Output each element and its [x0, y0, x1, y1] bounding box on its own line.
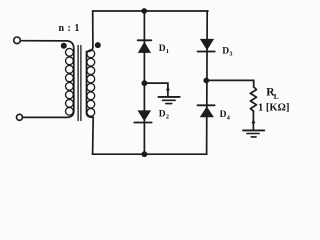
svg-text:D: D — [159, 110, 166, 120]
svg-text:D: D — [159, 44, 166, 54]
svg-text:D: D — [220, 110, 227, 120]
svg-text:D: D — [222, 47, 229, 57]
svg-text:2: 2 — [166, 114, 169, 121]
svg-text:n : 1: n : 1 — [59, 23, 80, 34]
svg-text:1: 1 — [166, 48, 169, 55]
svg-text:1 [KΩ]: 1 [KΩ] — [258, 103, 289, 114]
svg-text:L: L — [274, 92, 279, 101]
